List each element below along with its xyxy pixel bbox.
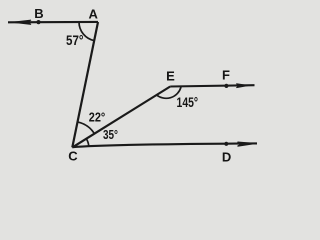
- arrowhead right on ray EF: [236, 84, 248, 88]
- angle arc at C between CE and CD: [86, 139, 89, 147]
- node F dot: [224, 84, 228, 88]
- arrowhead right on ray CD: [238, 142, 257, 146]
- node D dot: [224, 142, 228, 146]
- wire ray C to D rightward: [72, 143, 257, 147]
- wire segment A to C: [72, 22, 98, 147]
- svg-text:57°: 57°: [66, 33, 84, 48]
- arrowhead left on ray AB: [13, 20, 32, 24]
- angle arc at E: [156, 87, 181, 98]
- angle arc at C between CA and CE: [78, 122, 95, 134]
- wire ray from A leftward through B: [8, 21, 98, 23]
- node B dot: [36, 20, 40, 24]
- svg-text:A: A: [89, 7, 99, 22]
- svg-text:22°: 22°: [89, 111, 106, 125]
- angle arc at A: [79, 22, 94, 41]
- svg-text:C: C: [68, 149, 78, 164]
- svg-text:D: D: [222, 150, 231, 165]
- svg-text:E: E: [166, 68, 175, 83]
- wire ray E to F rightward: [170, 85, 254, 86]
- svg-text:F: F: [222, 67, 230, 82]
- svg-text:B: B: [34, 6, 43, 21]
- wire segment C to E: [72, 87, 170, 148]
- svg-text:145°: 145°: [177, 95, 199, 110]
- svg-text:35°: 35°: [103, 128, 118, 142]
